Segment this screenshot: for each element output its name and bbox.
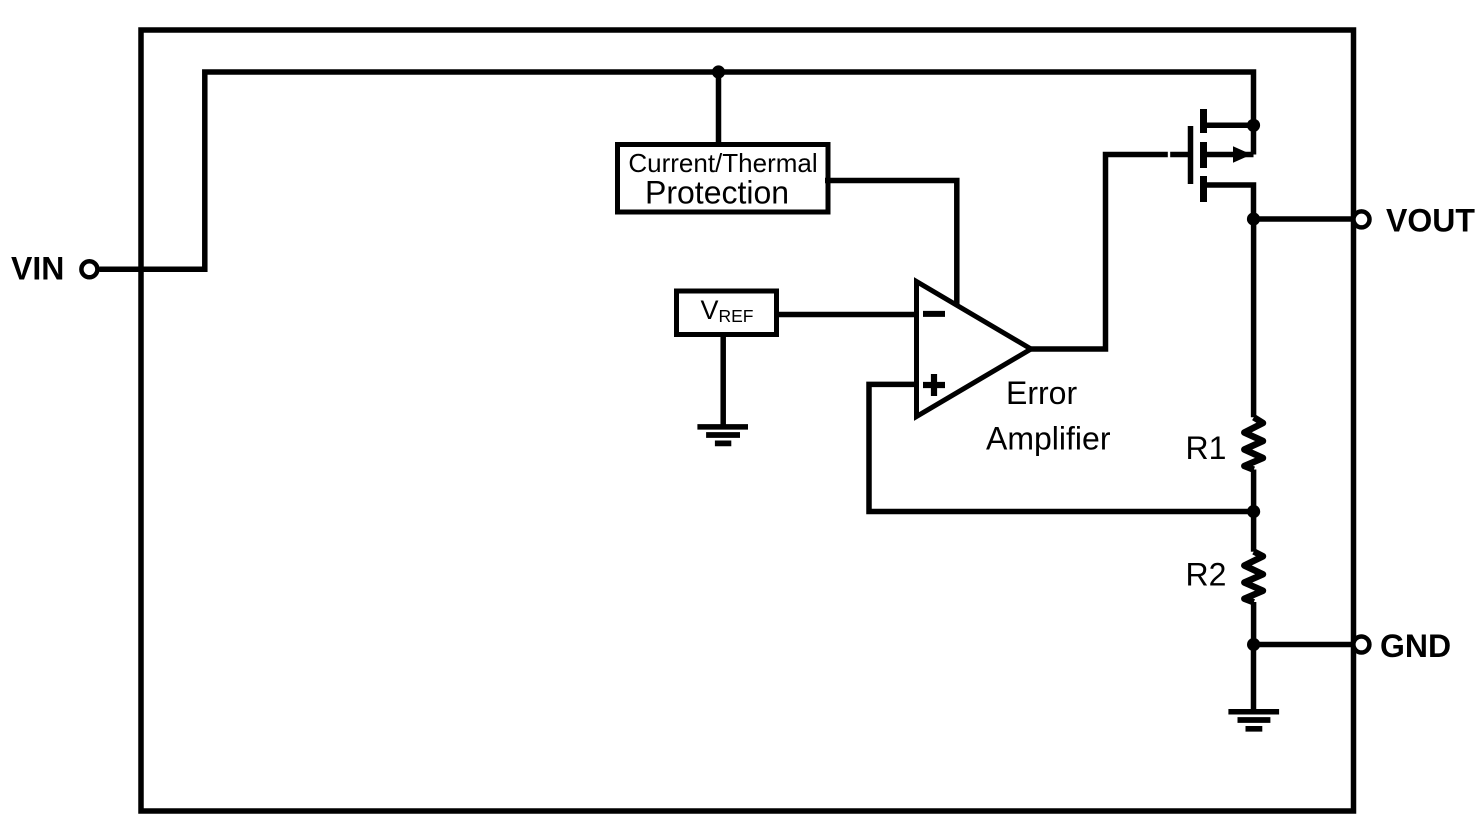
GND terminal circle — [1353, 637, 1369, 653]
label R1 — [1186, 430, 1227, 466]
VOUT label — [1386, 202, 1475, 238]
svg-text:V: V — [701, 295, 719, 325]
wire VOUT node down to R1 — [1251, 219, 1257, 417]
wire GND node to terminal — [1254, 642, 1354, 648]
wire R2 to GND node — [1251, 602, 1257, 645]
block VREF reference box — [677, 291, 777, 335]
GND label — [1380, 628, 1451, 664]
transistor Q1 source stub — [1207, 123, 1254, 129]
svg-text:VOUT: VOUT — [1386, 202, 1475, 238]
wire VREF output to op-amp inverting input — [774, 312, 917, 318]
svg-text:Current/Thermal: Current/Thermal — [628, 148, 817, 178]
wire feedback to op-amp non-inverting input — [869, 384, 1254, 511]
wire protection box output to error amplifier — [825, 181, 957, 305]
op-amp inverting input minus sign — [923, 311, 945, 317]
label R2 — [1186, 557, 1227, 593]
svg-text:R2: R2 — [1186, 557, 1227, 593]
node junction dot on supply rail — [712, 65, 725, 78]
svg-text:Protection: Protection — [645, 175, 789, 211]
wire supply rail to protection box — [716, 72, 722, 146]
wire feedback tap to R2 — [1251, 512, 1257, 552]
svg-text:VIN: VIN — [11, 251, 64, 287]
VOUT terminal circle — [1354, 211, 1370, 227]
ground symbol under VREF — [697, 427, 748, 444]
wire op-amp output to MOSFET gate — [1031, 155, 1188, 350]
node GND junction dot — [1247, 638, 1260, 651]
svg-text:GND: GND — [1380, 628, 1451, 664]
svg-text:Amplifier: Amplifier — [986, 421, 1111, 457]
transistor Q1 PMOS pass element gate bar — [1188, 126, 1194, 184]
transistor Q1 body stub with arrow — [1207, 146, 1254, 163]
node VOUT junction dot — [1247, 212, 1260, 225]
node feedback tap junction dot — [1247, 505, 1260, 518]
op-amp non-inverting input plus sign — [923, 374, 945, 396]
wire GND node ground stem — [1251, 645, 1257, 712]
svg-text:REF: REF — [719, 306, 754, 326]
node source junction dot — [1247, 119, 1260, 132]
svg-text:Error: Error — [1006, 375, 1077, 411]
ground symbol at GND node — [1228, 712, 1279, 729]
transistor Q1 channel segments — [1200, 109, 1207, 202]
svg-text:R1: R1 — [1186, 430, 1227, 466]
label Error Amplifier — [986, 375, 1111, 457]
VIN terminal circle — [81, 261, 97, 277]
IC boundary box — [141, 30, 1354, 811]
wire VIN net: lead, riser, top supply rail, drop to MOSFET source — [100, 72, 1254, 269]
resistor R1 zigzag — [1244, 417, 1263, 469]
wire R1 to feedback tap — [1251, 470, 1257, 512]
block Current/Thermal Protection box — [618, 145, 829, 213]
transistor Q1 drain stub — [1207, 185, 1254, 219]
VIN label — [11, 251, 64, 287]
op-amp U1 error amplifier triangle — [917, 282, 1032, 417]
wire VOUT node to terminal — [1254, 216, 1354, 222]
resistor R2 zigzag — [1244, 552, 1263, 603]
wire VREF ground stem — [720, 335, 726, 427]
